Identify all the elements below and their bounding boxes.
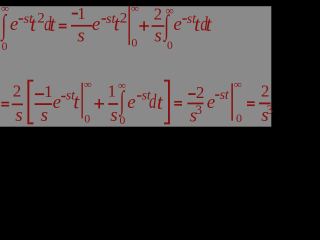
svg-text:e: e [92,14,100,35]
svg-text:∞: ∞ [234,79,242,91]
svg-text:e: e [10,14,18,35]
svg-text:1: 1 [108,82,117,101]
superscript minus 5 [137,95,142,96]
svg-text:1: 1 [77,4,86,23]
evaluation bar 2 [82,83,83,119]
equals sign line2 start upper bar [1,102,9,104]
svg-text:0: 0 [119,115,125,127]
fraction bar of -2/s^3 [187,103,203,105]
plus sign line1 vertical [143,21,145,31]
equals sign line1 upper bar [59,24,67,26]
svg-text:0: 0 [236,111,242,125]
right bracket bottom lip [164,122,168,124]
superscript minus 2 [102,18,107,19]
svg-text:2: 2 [196,83,205,102]
svg-text:∞: ∞ [84,79,92,91]
plus sign line2 vertical [98,99,100,109]
svg-text:∞: ∞ [131,3,139,15]
superscript minus 6 [215,94,219,95]
equals sign line2 end lower bar [247,104,255,106]
minus of -2/s^3 [188,93,195,95]
minus of -1 numerator [72,13,78,15]
svg-text:∞: ∞ [1,3,9,15]
svg-text:1: 1 [44,82,53,101]
svg-text:e: e [127,92,135,113]
svg-text:s: s [41,105,48,126]
fraction bar of -1/s (line2) [35,103,52,105]
svg-text:s: s [15,105,22,126]
svg-text:st: st [220,88,230,103]
svg-text:e: e [173,14,181,35]
plus sign line1 horizontal [139,25,149,27]
superscript minus 1 [19,18,24,19]
fraction bar of -1/s [71,25,92,27]
svg-text:e: e [53,92,61,113]
fraction bar of 2/s [152,25,165,27]
minus of -1/s (line2) [35,93,44,95]
svg-text:s: s [154,26,161,47]
evaluation bar 1 [129,6,130,45]
svg-text:3: 3 [267,102,274,117]
superscript minus 3 [182,18,186,19]
svg-text:2: 2 [154,4,163,23]
gray equation panel [0,6,271,127]
svg-text:0: 0 [2,41,8,53]
equals sign line2 start lower bar [1,105,9,107]
svg-text:d: d [149,92,157,113]
svg-text:0: 0 [131,35,137,49]
right bracket stem [168,80,170,125]
svg-text:2: 2 [261,82,270,101]
svg-text:∞: ∞ [118,80,126,92]
svg-text:s: s [110,105,117,126]
left bracket top lip [30,80,34,82]
equals sign line1 lower bar [59,27,67,29]
equals sign line2 middle upper bar [174,101,182,103]
fraction bar of 2/s (line2) [12,104,23,106]
evaluation bar 3 [231,83,233,120]
right bracket top lip [164,80,168,82]
svg-text:2: 2 [120,11,128,27]
superscript minus 4 [61,96,65,97]
left bracket stem [27,80,29,125]
equals sign line2 middle lower bar [174,104,182,106]
svg-text:0: 0 [167,40,173,52]
svg-text:s: s [77,26,84,47]
svg-text:0: 0 [84,112,90,126]
fraction bar of 1/s (line2) [108,103,118,105]
svg-text:e: e [207,92,215,113]
fraction bar of final 2/s^3 [259,103,271,105]
black slide background [0,0,279,131]
left bracket bottom lip [30,122,34,124]
svg-text:3: 3 [196,102,203,117]
equals sign line2 end upper bar [247,101,255,103]
svg-text:2: 2 [13,82,22,101]
plus sign line2 horizontal [94,103,104,105]
